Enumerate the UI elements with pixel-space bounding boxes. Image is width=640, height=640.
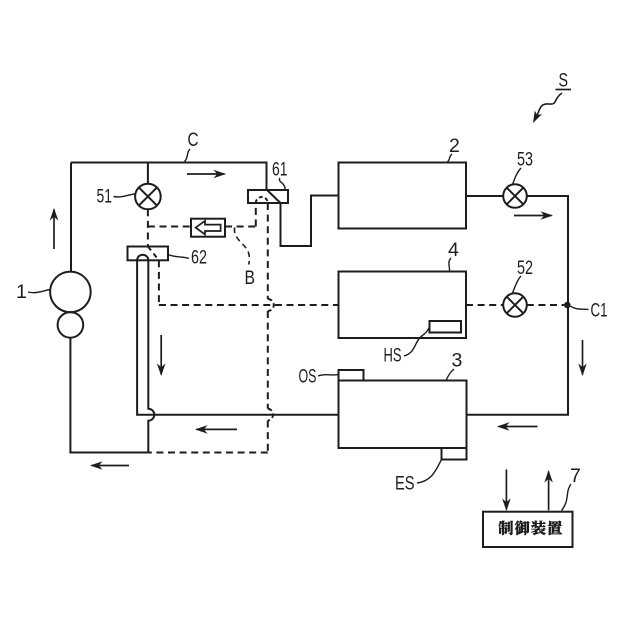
bypass B: dashed line to heat exchanger 4 [159, 304, 339, 306]
arrow to S [536, 93, 562, 118]
svg-text:2: 2 [449, 135, 460, 157]
pipe right line down to suction line [148, 260, 154, 452]
sensor OS [339, 370, 364, 381]
compressor 1 [50, 272, 91, 313]
wire: compressor suction bottom [70, 338, 148, 453]
flow arrow down beside right riser [582, 340, 584, 375]
evaporator 3 [339, 381, 467, 449]
svg-text:3: 3 [452, 350, 463, 372]
svg-text:61: 61 [272, 159, 288, 181]
bypass B: dashed drop below 62 [158, 260, 160, 305]
flow arrow down beside pipe [160, 335, 162, 375]
bypass B: dashed riser up to valve 61 [255, 203, 257, 227]
wire: valve 61 to condenser 2 [281, 196, 339, 247]
flow arrow right after valve 53 [514, 215, 552, 217]
svg-text:7: 7 [570, 465, 581, 487]
bypass B: dashed line valve51 to check valve [148, 226, 191, 228]
receiver 62 [128, 247, 169, 261]
flow arrow right on top line [187, 173, 225, 175]
sensor HS [430, 321, 462, 333]
flow arrow left bottom [92, 465, 130, 467]
condenser 2 [339, 163, 467, 229]
bypass B: dashed valve 52 to node C1 [527, 304, 564, 306]
flow arrow up beside left riser [53, 210, 55, 250]
svg-text:OS: OS [299, 366, 317, 388]
wire: valve 53 to right riser down to evaporator 3 [467, 196, 569, 415]
valve 53 [503, 184, 527, 208]
signal arrow into controller [505, 470, 507, 510]
svg-text:4: 4 [448, 239, 459, 261]
svg-text:1: 1 [16, 281, 27, 303]
wire: left riser [70, 163, 72, 273]
bypass B: dashed bottom to pipe junction [148, 452, 267, 454]
flow arrow left below pipe line [197, 428, 238, 430]
svg-text:ES: ES [395, 473, 415, 495]
signal arrow out of controller [548, 472, 550, 511]
flow arrow left into evaporator 3 [499, 426, 538, 428]
bypass B: dashed diagonal through 62 [148, 247, 159, 261]
flow-switching valve 61 [248, 190, 288, 203]
svg-text:B: B [245, 267, 256, 289]
sensor ES [442, 448, 467, 460]
bypass B: dashed drop from 61 with hops [267, 203, 269, 299]
valve 51 [147, 163, 149, 184]
pipe dome at 62 [137, 255, 148, 261]
bypass B: dashed check valve to riser [225, 226, 256, 228]
control device 7 [483, 512, 573, 547]
svg-text:62: 62 [191, 247, 207, 269]
svg-text:C1: C1 [591, 300, 608, 322]
check valve in bypass B [191, 219, 225, 237]
wire: condenser 2 to valve 53 [466, 195, 503, 197]
pipe left line down and to evaporator 3 with hop [137, 260, 338, 414]
valve 52 [503, 293, 527, 317]
svg-text:S: S [559, 70, 569, 92]
heat exchanger 4 [339, 272, 467, 339]
bypass B: dashed dome inside valve 61 [256, 197, 268, 203]
svg-text:53: 53 [517, 149, 533, 171]
svg-text:HS: HS [384, 345, 402, 367]
bypass B: dashed drop from valve 51 [147, 209, 149, 246]
svg-text:51: 51 [97, 186, 113, 208]
node C1 [564, 302, 571, 309]
bypass B: dashed 4 to valve 52 [466, 304, 503, 306]
svg-text:C: C [188, 129, 199, 151]
wire: top line from left riser to valve 61 [71, 163, 267, 191]
svg-text:52: 52 [517, 257, 533, 279]
